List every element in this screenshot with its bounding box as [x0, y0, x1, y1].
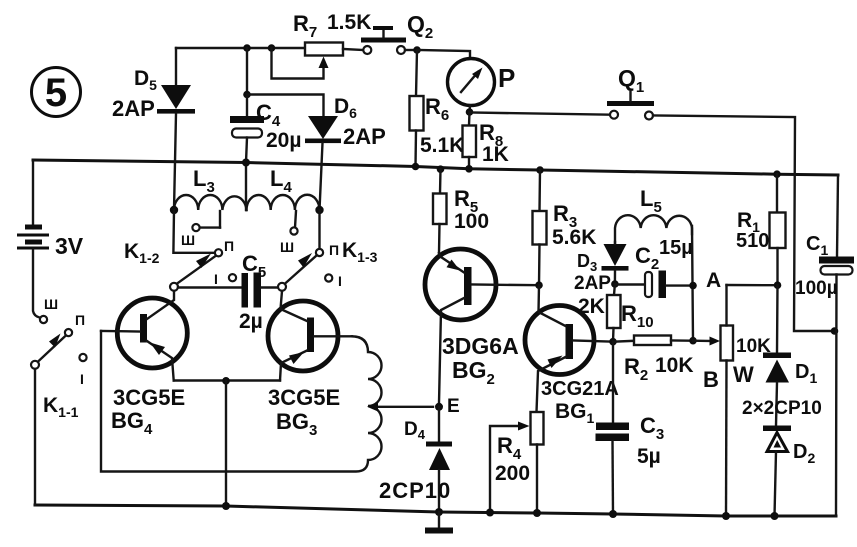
switch K1-3 — [278, 210, 378, 291]
svg-text:2AP: 2AP — [112, 96, 155, 121]
node A wire — [706, 269, 778, 292]
svg-text:2×2CP10: 2×2CP10 — [742, 398, 822, 419]
capacitor C1 100u — [795, 175, 854, 516]
inductor L5 15u — [615, 186, 692, 244]
svg-text:510: 510 — [736, 230, 769, 252]
resistor R1 510 — [736, 170, 786, 289]
svg-text:100: 100 — [454, 210, 489, 233]
svg-text:W: W — [733, 362, 754, 387]
capacitor C3 5u — [596, 342, 665, 518]
svg-text:B: B — [703, 367, 719, 392]
svg-text:P: P — [498, 63, 515, 93]
node E — [435, 396, 460, 417]
resistor R3 5.6K — [533, 166, 597, 285]
wire wiper arrow into W — [693, 337, 720, 346]
svg-text:Ш: Ш — [44, 296, 58, 312]
wire meter node to Q1 — [470, 113, 611, 115]
svg-text:I: I — [214, 271, 218, 287]
svg-text:A: A — [706, 269, 721, 292]
svg-text:2µ: 2µ — [239, 310, 263, 333]
resistor R8 1K — [463, 112, 509, 173]
svg-text:3CG5E: 3CG5E — [113, 385, 185, 410]
pushbutton Q2 — [343, 11, 433, 54]
svg-text:15µ: 15µ — [659, 237, 693, 259]
junction D4 on ground bus — [435, 508, 443, 516]
svg-text:3CG21A: 3CG21A — [541, 378, 619, 400]
node L4 right end — [315, 206, 323, 214]
svg-text:П: П — [224, 238, 234, 254]
resistor R10 2K — [578, 284, 654, 342]
junction bus tap — [242, 159, 250, 167]
wire common emitter line BG4/BG3 — [174, 379, 280, 381]
svg-text:I: I — [80, 371, 84, 387]
svg-text:100µ: 100µ — [795, 278, 838, 299]
svg-text:Ш: Ш — [280, 239, 294, 255]
resistor R4 200 with wiper — [486, 412, 544, 517]
svg-text:10K: 10K — [655, 354, 694, 377]
meter P — [417, 50, 515, 112]
svg-text:I: I — [338, 273, 342, 289]
figure number 5 badge — [32, 68, 81, 117]
svg-text:3DG6A: 3DG6A — [442, 333, 519, 359]
junction R2/L5/wiper node — [689, 337, 697, 345]
diode D4 2CP10 — [379, 407, 452, 512]
svg-text:200: 200 — [495, 462, 530, 485]
junction meter/R8 node — [466, 108, 474, 116]
svg-text:2CP10: 2CP10 — [379, 478, 451, 503]
switch K1-2 — [124, 210, 236, 291]
svg-text:3V: 3V — [55, 233, 84, 259]
wire Q1 to C1 bottom — [653, 116, 830, 332]
svg-text:3CG5E: 3CG5E — [268, 385, 340, 410]
diode D2 — [763, 426, 815, 521]
inductor L3 — [174, 166, 247, 210]
wire L3/L4 centre tap to bus — [245, 163, 247, 211]
svg-text:E: E — [447, 396, 460, 417]
potentiometer R7 1.5K — [272, 11, 372, 79]
resistor R5 100 — [433, 165, 489, 253]
transistor BG2 3DG6A — [425, 249, 539, 403]
junction on ground bus — [222, 502, 230, 510]
transistor BG4 3CG5E — [101, 291, 187, 438]
wire D1 to D2 — [776, 383, 777, 426]
diode D5 2AP — [112, 48, 195, 210]
resistor R2 10K — [613, 336, 694, 385]
inductor L4 — [247, 166, 320, 210]
capacitor C4 20u — [230, 48, 301, 163]
pushbutton Q1 — [607, 65, 654, 120]
svg-text:1.5K: 1.5K — [327, 11, 371, 34]
node L3 left end — [170, 206, 178, 214]
diode D3 2AP — [574, 242, 629, 294]
junction D3/C2/R10 node — [611, 280, 619, 288]
capacitor C5 2u — [178, 251, 278, 333]
diode D6 2AP — [247, 95, 386, 211]
wire emitter node to ground bus — [225, 381, 227, 506]
battery B 3V — [17, 160, 84, 318]
junction BG2 base / R3 / BG1 collector — [535, 281, 543, 289]
transistor BG3 3CG5E — [268, 291, 352, 439]
svg-text:2AP: 2AP — [343, 124, 386, 149]
wire top-left riser to R7 row — [176, 47, 305, 49]
wire E node tap arrow into winding — [367, 402, 433, 412]
switch K1-1 — [31, 296, 87, 505]
svg-text:2K: 2K — [578, 295, 605, 318]
svg-text:Ш: Ш — [181, 232, 195, 248]
svg-text:1K: 1K — [482, 143, 509, 166]
svg-text:5.1K: 5.1K — [420, 134, 464, 157]
junction Q2 node — [413, 46, 421, 54]
svg-text:5: 5 — [45, 71, 67, 115]
svg-text:П: П — [75, 312, 85, 328]
junction emitter node — [222, 377, 230, 385]
wire bottom ground bus — [35, 505, 836, 516]
ground stub below bus — [425, 512, 453, 534]
wire L5 right leg — [692, 226, 693, 341]
svg-text:П: П — [329, 242, 339, 258]
svg-text:20µ: 20µ — [266, 129, 301, 152]
wire top positive bus — [33, 160, 838, 175]
svg-text:2AP: 2AP — [574, 273, 611, 294]
svg-text:5µ: 5µ — [637, 445, 661, 468]
svg-text:5.6K: 5.6K — [552, 226, 596, 249]
junction BG1 base node — [609, 338, 617, 346]
feedback winding of BG3 — [101, 331, 382, 472]
potentiometer W 10K — [703, 285, 771, 520]
junction C2 right node — [689, 282, 697, 290]
diode D1 — [763, 285, 817, 386]
resistor R6 5.1K — [410, 50, 465, 170]
junction C4 tap on top wire — [243, 44, 251, 52]
junction C1 bottom tap — [831, 327, 839, 335]
transistor BG1 3CG21A — [525, 285, 619, 426]
junction R7 wiper tap — [268, 44, 276, 52]
capacitor C2 15u — [615, 237, 693, 298]
